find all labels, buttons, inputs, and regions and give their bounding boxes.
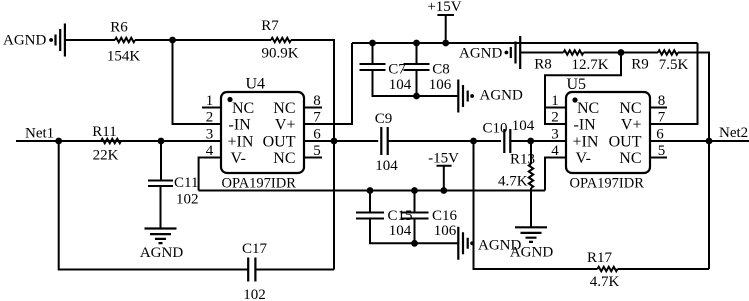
svg-text:C16: C16: [432, 208, 458, 224]
ground AGND top-left: [56, 24, 65, 57]
svg-text:+IN: +IN: [228, 133, 254, 150]
svg-text:NC: NC: [232, 100, 254, 117]
power -15V symbol: [437, 166, 452, 191]
wire C16 stem top: [414, 191, 416, 213]
wire +15V rail: [352, 42, 698, 44]
resistor R6: [115, 38, 135, 42]
wire C9 to C10: [388, 140, 501, 142]
wire R7 to U4 output feedback: [291, 40, 334, 141]
ground AGND mid (C7/C8): [458, 80, 467, 113]
svg-text:3: 3: [551, 127, 559, 143]
wire feedback vertical to OUT junction: [333, 141, 335, 270]
U4 pin 4 wire to -15V rail: [199, 158, 221, 191]
junction R6/R7/-IN node: [169, 37, 176, 44]
svg-text:-IN: -IN: [574, 116, 597, 133]
U4 pin 7 wire to +15V rail: [304, 43, 352, 124]
svg-text:R9: R9: [631, 57, 649, 73]
wire R6 to junction: [135, 39, 173, 41]
svg-text:AGND: AGND: [478, 238, 521, 254]
wire -15V rail: [199, 190, 545, 192]
U4 pin 8 stub: [304, 107, 322, 109]
resistor R13: [529, 164, 533, 188]
ground AGND top-right: [511, 36, 520, 69]
svg-text:102: 102: [176, 192, 199, 208]
ground AGND below R13: [515, 227, 547, 242]
resistor R9: [658, 50, 678, 54]
ground AGND below C11: [145, 229, 177, 244]
svg-text:R8: R8: [534, 57, 552, 73]
capacitor C8: [404, 64, 430, 70]
U5 output wire pin 6 to Net2: [650, 140, 749, 142]
svg-text:R13: R13: [510, 152, 535, 168]
capacitor C11: [148, 180, 173, 186]
svg-text:R11: R11: [92, 124, 116, 140]
svg-text:OPA197IDR: OPA197IDR: [222, 176, 297, 192]
wire Net1 input to U4 pin 3: [16, 140, 221, 142]
junction Net1/C17 branch: [55, 138, 62, 145]
svg-text:106: 106: [429, 77, 452, 93]
junction rail/C16: [411, 187, 418, 194]
junction rail/C15: [367, 187, 374, 194]
svg-text:Net1: Net1: [25, 126, 54, 142]
U5 pin 8 stub: [650, 107, 667, 109]
wire R17 to Net2 vertical: [618, 268, 710, 270]
ground AGND mid-bottom (C15/C16): [458, 227, 467, 260]
svg-text:12.7K: 12.7K: [571, 57, 608, 73]
svg-text:R6: R6: [110, 20, 128, 36]
svg-text:AGND: AGND: [459, 46, 502, 62]
wire junction to R9: [621, 52, 658, 54]
U5 pin 4 wire to -15V rail: [545, 158, 566, 191]
U4 output wire pin 6: [304, 140, 378, 142]
svg-text:R17: R17: [587, 250, 613, 266]
svg-text:C11: C11: [174, 175, 198, 191]
U5 pin 1 stub: [545, 107, 566, 109]
svg-text:NC: NC: [619, 100, 641, 117]
svg-text:106: 106: [434, 223, 457, 239]
svg-text:C17: C17: [242, 241, 268, 257]
svg-text:4.7K: 4.7K: [590, 274, 620, 290]
svg-text:V+: V+: [275, 116, 296, 133]
svg-text:4.7K: 4.7K: [498, 174, 528, 190]
svg-text:104: 104: [375, 158, 398, 174]
resistor R17: [598, 267, 618, 271]
svg-text:-15V: -15V: [428, 151, 459, 167]
svg-text:OUT: OUT: [263, 133, 296, 150]
capacitor C7: [360, 64, 386, 70]
svg-text:3: 3: [206, 127, 214, 143]
junction C8 bottom: [413, 93, 420, 100]
wire C15/C16 bottoms to AGND: [370, 219, 457, 244]
svg-text:2: 2: [206, 110, 214, 126]
svg-text:22K: 22K: [93, 148, 119, 164]
svg-text:C8: C8: [432, 62, 450, 78]
svg-text:V+: V+: [621, 116, 642, 133]
svg-text:+IN: +IN: [573, 133, 599, 150]
wire R9 to Net2 feedback: [678, 53, 709, 270]
svg-text:104: 104: [512, 118, 535, 134]
svg-text:154K: 154K: [107, 49, 141, 65]
resistor R7: [271, 38, 291, 42]
svg-text:C15: C15: [387, 208, 412, 224]
svg-text:8: 8: [658, 93, 666, 109]
svg-text:+15V: +15V: [427, 0, 461, 15]
wire AGND to R8: [520, 52, 563, 54]
wire C11 to ground: [160, 186, 162, 228]
svg-text:AGND: AGND: [480, 88, 523, 104]
junction R11/C11 node: [158, 138, 165, 145]
svg-text:V-: V-: [576, 150, 591, 167]
U4 pin 1 marker dot: [227, 97, 232, 102]
svg-text:C9: C9: [375, 111, 393, 127]
junction rail/C7: [369, 40, 376, 47]
capacitor C10: [504, 129, 510, 153]
junction rail/+15V stem: [442, 40, 449, 47]
svg-text:104: 104: [389, 77, 412, 93]
svg-text:OPA197IDR: OPA197IDR: [570, 176, 645, 192]
U5 pin 7 wire to +15V rail: [650, 43, 698, 124]
svg-text:102: 102: [243, 287, 266, 301]
wire junction to R7: [173, 39, 272, 41]
junction C10/R13/+IN U5: [527, 138, 534, 145]
U5 pin 1 marker dot: [572, 97, 577, 102]
wire junction down to U5 pin 2: [545, 53, 621, 125]
wire R8 to junction: [584, 52, 622, 54]
wire C7/C8 bottoms to AGND: [373, 70, 459, 96]
junction U5 OUT/R9/R17 Net2: [706, 138, 713, 145]
svg-text:NC: NC: [273, 100, 295, 117]
wire node down to C11: [160, 141, 162, 180]
svg-text:NC: NC: [619, 150, 641, 167]
power +15V symbol: [437, 15, 454, 43]
svg-text:AGND: AGND: [3, 33, 46, 49]
svg-text:2: 2: [551, 110, 559, 126]
capacitor C9: [381, 127, 387, 155]
svg-text:R7: R7: [261, 18, 279, 34]
svg-text:U4: U4: [246, 76, 266, 93]
wire C17 to U4 output: [255, 269, 334, 271]
junction rail/-15V stem: [440, 187, 447, 194]
svg-text:OUT: OUT: [609, 133, 642, 150]
svg-text:C10: C10: [482, 121, 507, 137]
svg-text:90.9K: 90.9K: [261, 46, 298, 62]
svg-text:V-: V-: [231, 150, 246, 167]
wire C8 stem top: [416, 43, 418, 64]
svg-text:AGND: AGND: [140, 245, 183, 261]
wire C15 stem top: [369, 191, 371, 213]
op-amp U4 body: [221, 92, 304, 173]
capacitor C17: [248, 258, 255, 282]
wire C10 to U5 pin 3: [510, 140, 566, 142]
svg-text:7.5K: 7.5K: [659, 57, 689, 73]
junction R8/R9/-IN U5: [618, 49, 625, 56]
svg-text:Net2: Net2: [719, 125, 748, 141]
svg-text:1: 1: [206, 93, 214, 109]
op-amp U5 body: [566, 92, 650, 173]
svg-text:1: 1: [551, 93, 559, 109]
junction C9/C10/R17 node: [470, 138, 477, 145]
U4 pin 5 stub: [304, 157, 322, 159]
resistor R8: [564, 50, 584, 54]
svg-text:104: 104: [389, 223, 412, 239]
junction U4 OUT/R7/C17: [331, 138, 338, 145]
svg-text:8: 8: [313, 93, 321, 109]
svg-text:-IN: -IN: [229, 116, 252, 133]
U4 pin 1 stub: [202, 107, 221, 109]
wire AGND to R6: [65, 39, 115, 41]
capacitor C15: [356, 213, 384, 219]
wire R13 to ground: [530, 188, 532, 227]
junction rail/C8: [413, 40, 420, 47]
wire C7 stem top: [372, 43, 374, 64]
wire Net1 down to C17: [59, 141, 249, 270]
junction C16 bottom: [411, 240, 418, 247]
wire junction down to U4 pin 2: [173, 40, 222, 124]
svg-text:U5: U5: [567, 76, 587, 93]
wire R13 top lead: [530, 141, 532, 164]
U5 pin 5 stub: [650, 157, 667, 159]
resistor R11: [101, 139, 121, 143]
wire node down to R17: [474, 141, 598, 269]
svg-text:NC: NC: [577, 100, 599, 117]
capacitor C16: [401, 213, 429, 219]
svg-text:NC: NC: [273, 150, 295, 167]
